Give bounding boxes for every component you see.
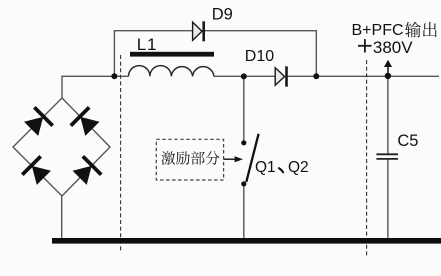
svg-text:Q1: Q1 [255,159,276,176]
bridge diode top-left [22,106,54,138]
node junction D9/D10 output [313,73,319,79]
wire bridge top lead [62,76,114,98]
node junction left (bridge/L1/D9) [111,73,117,79]
bridge diode bottom-right [70,155,102,187]
node junction output/C5 [385,73,391,79]
arrow excitation to switch [224,158,236,160]
wire C5 top lead [387,76,389,154]
svg-text:D10: D10 [245,48,274,65]
switch Q1 Q2 top contact [241,140,246,145]
dashed boundary line left [120,55,122,253]
wire switch top lead [243,76,245,141]
bridge diode top-right [69,106,101,138]
diode D10 [275,68,284,86]
wire main rail left segment [114,75,128,77]
label excitation part (CJK as paths) [161,151,219,165]
wire coil to D10 [214,75,275,77]
dashed boundary line right [366,60,368,256]
switch Q1 Q2 blade [246,134,258,182]
bridge rectifier diamond [13,98,110,196]
svg-text:Q2: Q2 [288,159,309,176]
label ideographic comma [279,168,283,172]
label +380V plus sign [358,45,372,47]
svg-text:B+PFC: B+PFC [352,22,404,39]
label CJK output chars [405,22,437,38]
wire junction riser and top rail to D9 bypass [114,31,316,77]
inductor L1 coil [129,66,214,77]
wire C5 bottom lead [387,160,389,239]
svg-text:C5: C5 [397,132,418,150]
ground bus bar [52,238,441,244]
wire switch bottom lead [243,186,245,239]
capacitor C5 plates [376,153,398,155]
wire bridge bottom lead [61,196,63,239]
bridge diode bottom-left [21,155,53,187]
svg-text:L1: L1 [137,35,158,54]
switch Q1 Q2 bottom contact [241,181,246,186]
output arrow up [387,66,389,75]
diode D9 [193,22,202,40]
svg-text:D9: D9 [212,5,233,23]
svg-text:380V: 380V [373,38,413,57]
inductor L1 core bar [130,52,214,57]
excitation driver dashed box [156,139,223,180]
node junction L1/D10/switch [241,73,247,79]
wire D10 to output [287,75,440,77]
